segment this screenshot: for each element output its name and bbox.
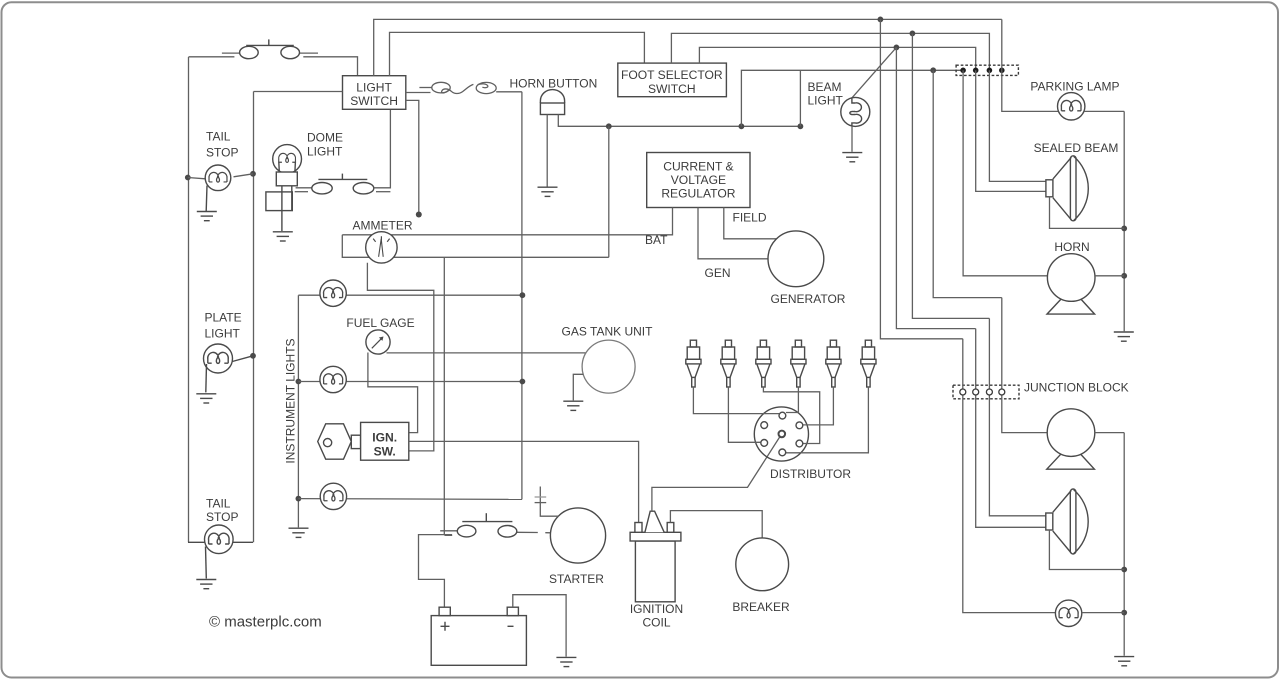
distributor terminals: [761, 412, 803, 456]
node dot (741,126.3): [739, 123, 745, 129]
lamp bottom tail lamp: [1055, 600, 1081, 626]
wire sealed beam 2 bottom to bus2: [1049, 530, 1124, 570]
wire col2 connector to sealed beam lower lead (x=975.7): [976, 70, 1046, 191]
wire instrument lamp3 row to V522 bottom: [298, 498, 522, 501]
svg-text:FOOT SELECTOR: FOOT SELECTOR: [621, 68, 723, 82]
junction block terminal 4: [999, 389, 1005, 395]
wire col3 connector to sealed beam upper lead (x=989): [989, 70, 1046, 181]
wire plug3 to distributor lower-right terminal: [763, 387, 819, 444]
wire battery positive feed: [419, 535, 453, 607]
wire fuel gage to gas tank unit: [387, 352, 586, 354]
battery minus sign: [508, 625, 514, 627]
wire light switch right pin2 down to terminal dot: [406, 100, 419, 214]
connector pin 2: [973, 68, 979, 74]
wire parking lamp right to bus1: [1084, 110, 1124, 112]
switch S1 headlamp switch (top-left): [240, 39, 300, 58]
wire FIELD: regulator pin3 to generator: [724, 208, 777, 239]
junction block terminal 1: [960, 389, 966, 395]
wire fuel gage bottom to IGN switch pin1: [368, 353, 418, 433]
wire B-left: light switch top pin2 to foot selector pin1: [390, 32, 645, 75]
horn top: [1047, 254, 1095, 314]
wire BAT: regulator pin1 to ammeter top rail: [342, 208, 672, 235]
lamp plate light: [204, 344, 254, 392]
wire instrument lights bus (x=298): [297, 295, 299, 527]
node dot bus2 bottom lamp (1124.2,612.6): [1121, 610, 1127, 616]
wire B-right: foot selector pin2 up/right to col3: [671, 33, 989, 70]
svg-text:FIELD: FIELD: [733, 211, 767, 225]
svg-text:GAS TANK UNIT: GAS TANK UNIT: [562, 324, 654, 338]
breaker: [736, 538, 789, 591]
svg-text:BEAM: BEAM: [808, 80, 842, 94]
ground for bus2: [1114, 657, 1134, 666]
sealed beam headlamp top: [1046, 156, 1088, 221]
svg-text:JUNCTION BLOCK: JUNCTION BLOCK: [1024, 380, 1129, 394]
fuel gage meter: [366, 330, 390, 354]
ground battery: [556, 657, 576, 666]
svg-text:STARTER: STARTER: [549, 572, 604, 586]
ammeter meter: [366, 232, 397, 263]
svg-text:DOME: DOME: [307, 131, 343, 145]
wire dome light to dome switch: [296, 187, 313, 189]
svg-text:DISTRIBUTOR: DISTRIBUTOR: [770, 467, 851, 481]
svg-text:IGNITION: IGNITION: [630, 602, 683, 616]
wire bus1 right vertical (parking to ground): [1123, 111, 1125, 331]
node dot wire D (933.2,70): [930, 67, 936, 73]
ground for bus1: [1114, 332, 1134, 341]
wire plug1 to distributor top terminal: [693, 387, 779, 414]
spark plug 3: [756, 340, 771, 387]
ground under instrument bus: [289, 528, 309, 537]
wire light switch left pin to bus x=253: [254, 91, 343, 93]
battery: [431, 607, 526, 665]
junction block terminal 3: [986, 389, 992, 395]
lamp instrument 2: [320, 366, 346, 392]
wire horn button to ground: [546, 115, 548, 187]
wire starter feed: lower rail T down to starter switch contact: [443, 257, 445, 535]
gas tank unit: [582, 340, 635, 393]
lamp beam light: [841, 97, 870, 126]
key symbol: [318, 424, 361, 459]
svg-text:HORN BUTTON: HORN BUTTON: [510, 77, 598, 91]
wire D drop at x=800: [799, 70, 801, 126]
ignition coil: [630, 511, 681, 602]
wire horn right to bus1: [1095, 275, 1124, 277]
wire col4 staircase to horn 2 (x=1001.8): [1002, 298, 1049, 433]
svg-text:TAIL: TAIL: [206, 497, 231, 511]
junction block terminal 2: [973, 389, 979, 395]
wire coil right terminal to breaker: [670, 511, 762, 538]
ground under horn button: [538, 187, 558, 196]
wire beam light to ground: [851, 126, 853, 152]
svg-text:GENERATOR: GENERATOR: [771, 292, 846, 306]
wire plug5 to distributor upper-right terminal: [803, 387, 833, 425]
starter switch fixed contact bar: [445, 534, 453, 536]
svg-text:HORN: HORN: [1054, 240, 1089, 254]
lamp instrument 3: [320, 483, 346, 509]
svg-text:LIGHT: LIGHT: [808, 94, 844, 108]
ground under top tail lamp: [197, 212, 217, 221]
box current & voltage regulator: [647, 153, 750, 208]
lamp parking lamp: [1058, 93, 1085, 120]
lamp tail-stop bottom: [188, 525, 253, 579]
wire right-left bus x=253 from light switch to bottom tail lamp: [253, 92, 255, 543]
wire from horn branch up to wire D (x=741): [741, 70, 963, 126]
ground under dome light: [273, 232, 293, 241]
wire bus2 vertical to ground: [1123, 433, 1125, 656]
node dot lamp2 to V522 (522.4,381.5): [520, 379, 526, 385]
svg-text:STOP: STOP: [206, 145, 238, 159]
spark plug 4: [791, 340, 806, 387]
wire tail lamp leads: [188, 174, 253, 179]
spark plug 6: [861, 340, 876, 387]
svg-text:BREAKER: BREAKER: [732, 600, 790, 614]
svg-text:LIGHT: LIGHT: [205, 327, 241, 341]
ground under plate light: [196, 394, 216, 403]
wire dome switch right contact dash: [376, 191, 390, 193]
wire battery negative to ground: [513, 595, 566, 657]
horn 2 (lower): [1047, 409, 1095, 469]
wire left bus x=188 from top switch to bottom tail lamp: [188, 57, 190, 542]
starter solenoid stub with ticks: [535, 487, 559, 517]
node dot wire A (880.4,19): [878, 17, 884, 23]
wire col3 staircase to sealed beam 2 upper (x=989): [989, 318, 1045, 515]
node dot wire B (912.4,33.4): [910, 31, 916, 37]
node dot (608.8,126.3): [606, 123, 612, 129]
ground under beam light: [842, 153, 862, 162]
svg-text:PARKING LAMP: PARKING LAMP: [1030, 79, 1119, 93]
lamp tail-stop top: [205, 165, 231, 211]
wire diagonal from wire C to beam light: [852, 47, 896, 97]
wire C: foot selector pin3 up/right to col2: [699, 47, 975, 70]
wire dome switch left contact dash: [295, 191, 308, 193]
horn button symbol: [540, 90, 564, 115]
svg-text:BAT: BAT: [645, 233, 668, 247]
wire ammeter bottom terminal to IGN switch pin3: [367, 263, 433, 451]
wire dome switch to light switch bottom pin: [374, 109, 391, 188]
wire top switch left contact lead: [222, 52, 239, 54]
svg-text:SWITCH: SWITCH: [350, 94, 398, 108]
ground under bottom tail lamp: [196, 580, 216, 589]
svg-text:CURRENT &: CURRENT &: [663, 159, 733, 173]
box IGN SW: [361, 422, 409, 460]
node dot bus1 sealed beam (1124.2,228.4): [1121, 226, 1127, 232]
wire col vertical from wire A dot down to staircase (x=880.4): [880, 19, 962, 338]
svg-text:INSTRUMENT LIGHTS: INSTRUMENT LIGHTS: [284, 338, 298, 463]
node dot bus2 sealed beam2 (1124.2,569.5): [1121, 567, 1127, 573]
sealed beam headlamp bottom: [1046, 489, 1088, 554]
wire bottom lamp right to bus2: [1082, 612, 1125, 614]
svg-text:SW.: SW.: [374, 444, 396, 458]
wire top switch right to light switch top: [303, 57, 357, 76]
node dot plate light to bus (253,355.8): [250, 353, 256, 359]
wire gas tank to ground: [573, 374, 583, 400]
generator: [768, 231, 824, 287]
wire ammeter lower rail: [342, 235, 609, 257]
node dot bus1 horn (1124.2,275.8): [1121, 273, 1127, 279]
wire instrument lamp1 row: [298, 294, 522, 296]
node dot tail lamp right (253,173.8): [250, 171, 256, 177]
switch S2 dome switch: [312, 174, 374, 194]
wire top switch right contact lead: [300, 52, 318, 54]
node dot lamp1 to V522 (522.4,295.2): [520, 292, 526, 298]
connector block (dashed) top right: [956, 65, 1018, 75]
wire col2 staircase to sealed beam 2 lower (x=975.7): [976, 329, 1046, 528]
wire sealed beam bottom to bus1: [1050, 197, 1125, 229]
connector pin 3: [987, 68, 993, 74]
svg-text:© masterplc.com: © masterplc.com: [209, 614, 322, 631]
wire col1 staircase to bottom lamp (x=962.8): [963, 339, 1056, 613]
svg-text:LIGHT: LIGHT: [307, 145, 343, 159]
wire col vertical from wire D dot down to staircase (x=933.2): [933, 70, 1002, 297]
wire horn 2 right to bus2: [1095, 432, 1125, 434]
connector pin 1: [960, 68, 966, 74]
spark plug 1: [686, 340, 701, 387]
node terminal dot (418.8,214.5): [416, 212, 422, 218]
wire from horn branch down to ammeter lower rail (x=608.8): [608, 126, 610, 257]
node dot inst bus lamp3 (298,498.6): [296, 496, 302, 502]
connector pin 4: [999, 68, 1005, 74]
svg-text:REGULATOR: REGULATOR: [661, 187, 735, 201]
starter motor: [550, 508, 605, 563]
wire instrument lamp2 row: [298, 381, 522, 383]
svg-text:SWITCH: SWITCH: [648, 82, 696, 96]
wire top switch left bus connection: [189, 56, 235, 58]
svg-text:COIL: COIL: [642, 616, 670, 630]
lamp dome light bulb: [266, 145, 302, 231]
switch S3 starter foot switch: [440, 513, 551, 537]
distributor body circle: [754, 407, 808, 461]
wire coil tower to distributor center: [652, 437, 780, 512]
svg-text:STOP: STOP: [206, 510, 238, 524]
svg-text:IGN.: IGN.: [372, 430, 397, 444]
svg-text:LIGHT: LIGHT: [356, 80, 392, 94]
svg-text:GEN: GEN: [705, 266, 731, 280]
node dot inst bus lamp2 (298,381.5): [296, 379, 302, 385]
svg-text:PLATE: PLATE: [205, 311, 242, 325]
box light switch: [343, 76, 406, 110]
box foot selector switch: [618, 63, 727, 97]
junction block (dashed): [953, 385, 1019, 399]
ground under gas tank: [563, 401, 583, 410]
spark plug 5: [826, 340, 841, 387]
wire col1 connector to horn (x=963.1): [963, 70, 1049, 275]
svg-text:TAIL: TAIL: [206, 130, 231, 144]
wire col4 wire A to parking lamp (x=1001.8): [1002, 19, 1058, 111]
svg-text:SEALED BEAM: SEALED BEAM: [1034, 141, 1119, 155]
svg-text:FUEL GAGE: FUEL GAGE: [346, 316, 414, 330]
wire horn button branch (y=126) with junctions: [558, 115, 800, 127]
wire V522: horn circuit vertical down to instrument lamps: [521, 92, 523, 500]
wire plug4 to distributor top terminal right: [786, 387, 798, 413]
wire plug2 to distributor lower-left terminal: [728, 387, 760, 442]
node dot tail lamp left (188,177.5): [185, 175, 191, 181]
svg-text:AMMETER: AMMETER: [353, 218, 413, 232]
lamp instrument 1: [320, 280, 346, 306]
wire plug6 to distributor bottom terminal: [786, 387, 868, 453]
wire IGN SW pin2 to ignition coil: [409, 441, 639, 522]
wire A: light switch top pin1 up and right to x=1001.8: [374, 19, 1002, 75]
wire col vertical from wire C dot down to staircase (x=896.4): [896, 47, 975, 328]
wire GEN: regulator pin2 to generator: [698, 208, 768, 259]
spark plug 2: [721, 340, 736, 387]
wire col vertical from wire B dot down to staircase (x=912.4): [912, 33, 989, 318]
node dot wire C (896.4,47): [894, 45, 900, 51]
battery plus sign: [441, 622, 450, 631]
svg-text:VOLTAGE: VOLTAGE: [671, 173, 726, 187]
node dot (800,126.3): [798, 123, 804, 129]
flexible conductor to horn button (light switch right pin1): [406, 82, 522, 93]
